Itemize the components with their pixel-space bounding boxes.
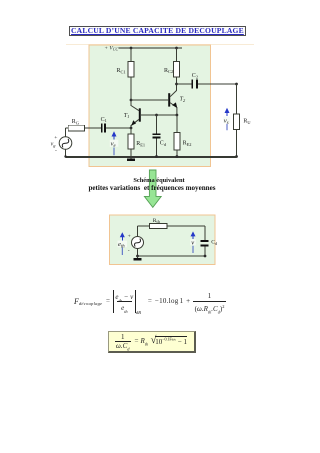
arrow eth (source voltage) xyxy=(118,232,128,255)
node: source bottom corner xyxy=(64,155,66,157)
svg-text:+: + xyxy=(54,135,57,141)
node: Cd bottom junction (panel 2) xyxy=(204,255,207,258)
node: output top of RU xyxy=(235,83,238,86)
capacitor C2 xyxy=(177,73,237,88)
node: Cd tap on base rail xyxy=(155,114,158,117)
circuit panel 1 xyxy=(89,45,211,167)
label +VCC xyxy=(104,46,118,52)
svg-text:Cd: Cd xyxy=(211,240,218,246)
ground rail (bottom) xyxy=(66,156,237,158)
source eth xyxy=(128,226,144,256)
ground symbol (main rail) xyxy=(127,157,135,162)
equivalent-schematic caption line 2 xyxy=(62,185,242,193)
resistor RC1 xyxy=(117,48,135,77)
transistor T2 xyxy=(168,77,186,115)
node B: C1 / T1 emitter / RE1 junction xyxy=(130,127,133,130)
svg-text:T1: T1 xyxy=(124,113,130,119)
transistor T1 xyxy=(124,106,141,129)
power rail +VCC xyxy=(119,47,183,49)
node A: RC1 / T1 collector / T2 base junction xyxy=(130,99,133,102)
node: rail to RC1 junction xyxy=(130,47,133,50)
source vg xyxy=(51,128,72,157)
svg-text:RE2: RE2 xyxy=(183,141,192,147)
arrow v (voltage across Cd) xyxy=(190,231,196,253)
horizontal rule under title xyxy=(66,43,254,46)
svg-text:Rth: Rth xyxy=(153,218,161,224)
wire: bottom return of panel 2 xyxy=(138,255,206,257)
wire node A to T2 base xyxy=(131,99,168,101)
svg-text:RC1: RC1 xyxy=(117,68,126,74)
arrow ve (input voltage) xyxy=(110,131,119,155)
formula result box xyxy=(108,331,196,353)
svg-text:+ VCC: + VCC xyxy=(104,46,118,52)
svg-text:-: - xyxy=(55,148,57,154)
resistor RE1 xyxy=(128,128,145,157)
green down arrow between schematics xyxy=(144,170,161,207)
svg-text:+: + xyxy=(128,234,131,240)
svg-text:C2: C2 xyxy=(192,73,198,79)
node: Cd bottom on ground rail xyxy=(155,155,158,158)
arrow vs (output voltage) xyxy=(223,108,230,131)
circuit panel 2 xyxy=(110,215,216,265)
resistor RU xyxy=(234,84,252,157)
ground symbol (panel 2) xyxy=(134,256,142,261)
capacitor Cd (panel 2) xyxy=(201,226,218,256)
svg-text:RU: RU xyxy=(243,119,251,125)
node: T2 emitter / RE2 junction xyxy=(176,114,179,117)
node: T2 collector / C2 tap xyxy=(175,83,178,86)
wire T1 base rail xyxy=(141,114,177,116)
wire RC1 bottom to T1 collector node xyxy=(130,77,132,106)
node: RE2 bottom on ground rail xyxy=(176,155,179,158)
resistor Rth xyxy=(138,218,206,229)
svg-text:v: v xyxy=(191,239,194,246)
resistor RC2 xyxy=(164,48,180,77)
title box xyxy=(69,26,246,35)
svg-text:RG: RG xyxy=(72,119,80,125)
capacitor C1 xyxy=(101,117,131,133)
node: rail to RC2 junction xyxy=(175,47,178,50)
equivalent-schematic caption line 1 xyxy=(109,177,209,185)
svg-text:T2: T2 xyxy=(180,96,186,102)
svg-text:Cd: Cd xyxy=(160,141,167,147)
node: eth bottom junction xyxy=(136,255,139,258)
svg-text:-: - xyxy=(128,248,130,254)
svg-text:vg: vg xyxy=(51,141,57,147)
formula: attenuation of decoupling xyxy=(74,290,226,313)
node: bottom of RU on ground rail xyxy=(235,155,238,158)
svg-text:C1: C1 xyxy=(101,117,107,123)
resistor RE2 xyxy=(174,115,192,157)
capacitor Cd xyxy=(153,115,167,157)
svg-text:RE1: RE1 xyxy=(136,141,145,147)
svg-text:RC2: RC2 xyxy=(164,68,173,74)
resistor RG xyxy=(66,119,101,131)
